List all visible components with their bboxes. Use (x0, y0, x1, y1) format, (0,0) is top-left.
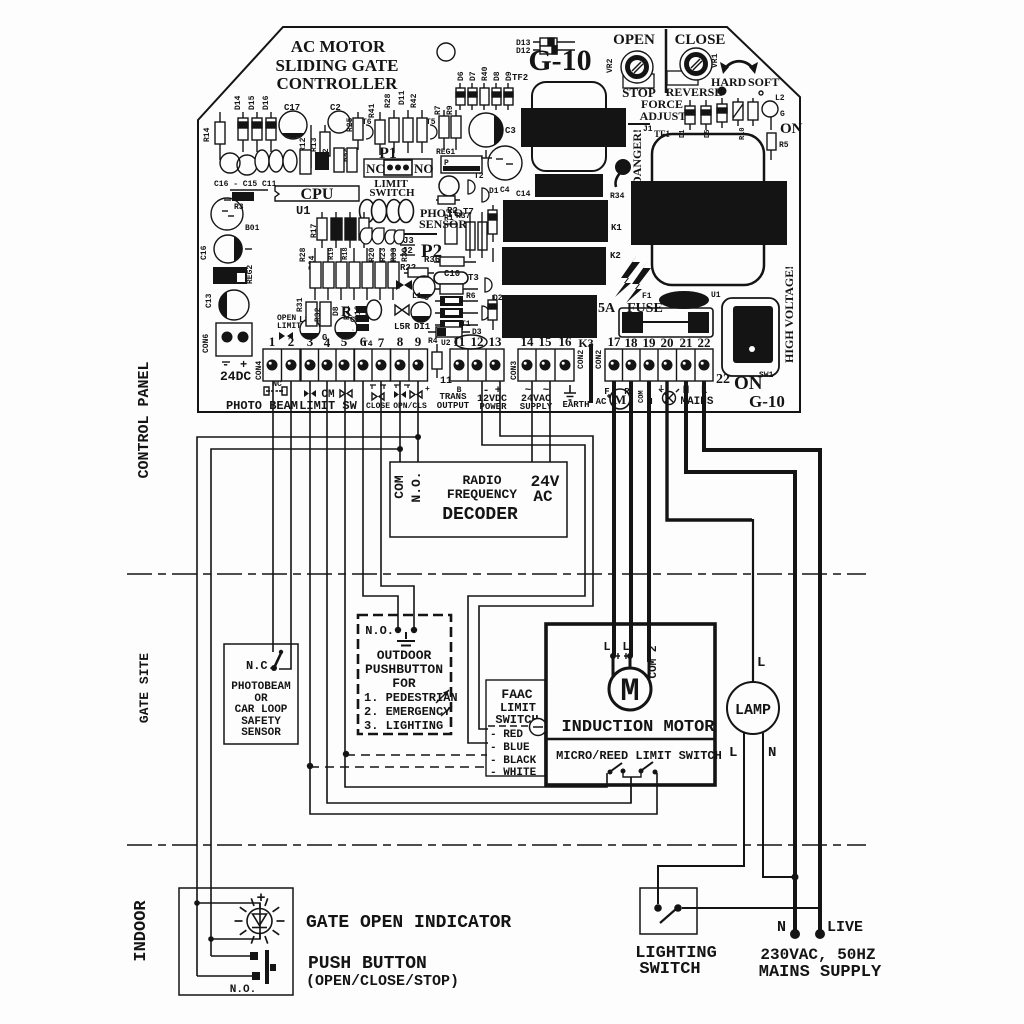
svg-text:N.O.: N.O. (230, 984, 256, 996)
svg-text:D14: D14 (234, 95, 243, 110)
svg-text:NC: NC (366, 161, 385, 176)
svg-text:SWITCH: SWITCH (369, 187, 415, 199)
svg-text:PUSH BUTTON: PUSH BUTTON (308, 954, 427, 974)
svg-text:R6: R6 (466, 292, 476, 301)
svg-text:CON6: CON6 (202, 334, 211, 353)
svg-text:11: 11 (440, 376, 452, 387)
svg-text:D15: D15 (248, 95, 257, 110)
svg-text:N: N (777, 919, 786, 936)
svg-text:DI1: DI1 (414, 322, 431, 332)
svg-text:L: L (660, 385, 664, 393)
svg-text:FOR: FOR (392, 676, 416, 691)
svg-text:SWITCH: SWITCH (639, 960, 700, 979)
svg-text:INDUCTION MOTOR: INDUCTION MOTOR (561, 718, 715, 737)
svg-text:15: 15 (539, 334, 553, 349)
svg-text:1: 1 (269, 334, 276, 349)
svg-text:TF1: TF1 (654, 129, 671, 139)
svg-text:CPU: CPU (301, 186, 334, 203)
svg-text:1. PEDESTRIAN: 1. PEDESTRIAN (364, 691, 458, 705)
svg-text:FREQUENCY: FREQUENCY (447, 487, 517, 502)
svg-text:G-10: G-10 (528, 44, 591, 77)
svg-text:OPN/CLS: OPN/CLS (393, 402, 427, 411)
svg-text:R33: R33 (390, 247, 399, 262)
svg-text:+: + (425, 385, 430, 394)
svg-text:N.O.: N.O. (365, 624, 394, 638)
svg-text:13: 13 (489, 334, 503, 349)
svg-text:C16: C16 (200, 245, 209, 260)
svg-text:24DC: 24DC (220, 369, 251, 384)
svg-text:- BLUE: - BLUE (490, 742, 530, 754)
svg-text:R36: R36 (424, 255, 440, 265)
svg-text:R7: R7 (434, 105, 443, 115)
svg-text:R41: R41 (368, 103, 377, 118)
svg-text:(OPEN/CLOSE/STOP): (OPEN/CLOSE/STOP) (306, 973, 459, 990)
svg-text:C3: C3 (505, 126, 516, 136)
svg-text:20: 20 (661, 335, 674, 350)
svg-text:OUTDOOR: OUTDOOR (377, 648, 432, 663)
svg-text:R34: R34 (610, 192, 625, 201)
svg-text:D8: D8 (493, 71, 502, 81)
svg-text:FAAC: FAAC (501, 687, 532, 702)
svg-text:19: 19 (643, 335, 657, 350)
svg-text:R19: R19 (328, 247, 336, 260)
svg-text:CON3: CON3 (510, 361, 519, 380)
svg-text:C16 - C15 C11: C16 - C15 C11 (214, 180, 277, 189)
svg-text:REG2: REG2 (246, 265, 255, 284)
svg-text:POWER: POWER (479, 402, 507, 412)
svg-text:INDOOR: INDOOR (132, 900, 151, 962)
svg-text:P: P (444, 159, 449, 168)
svg-text:D16: D16 (262, 95, 271, 110)
svg-text:TF2: TF2 (512, 73, 528, 83)
svg-text:C10: C10 (444, 269, 460, 279)
svg-text:D7: D7 (469, 71, 478, 81)
svg-text:AC MOTOR: AC MOTOR (291, 37, 386, 56)
svg-text:18: 18 (625, 335, 639, 350)
svg-text:R1: R1 (444, 214, 454, 223)
svg-text:F1: F1 (642, 292, 652, 301)
svg-text:U1: U1 (711, 291, 721, 300)
svg-text:CAR LOOP: CAR LOOP (235, 704, 288, 716)
svg-text:5A: 5A (598, 301, 616, 316)
svg-text:LAMP: LAMP (735, 702, 771, 719)
svg-text:3: 3 (307, 334, 314, 349)
svg-text:D9: D9 (505, 71, 514, 81)
svg-text:PUSHBUTTON: PUSHBUTTON (365, 662, 443, 677)
svg-text:CON2: CON2 (577, 350, 586, 369)
svg-text:RADIO: RADIO (462, 473, 501, 488)
svg-text:R14: R14 (203, 127, 212, 142)
svg-text:- BLACK: - BLACK (490, 755, 537, 767)
svg-text:M: M (620, 673, 639, 710)
svg-text:T6: T6 (362, 118, 372, 127)
svg-text:T5: T5 (426, 118, 436, 127)
svg-text:SENSOR: SENSOR (241, 727, 281, 739)
svg-text:MAINS SUPPLY: MAINS SUPPLY (759, 963, 882, 982)
svg-text:OPEN: OPEN (613, 32, 655, 48)
svg-text:R10: R10 (739, 127, 747, 140)
svg-text:J1: J1 (643, 125, 653, 134)
svg-text:N: N (768, 745, 776, 761)
svg-text:16: 16 (559, 334, 573, 349)
svg-text:GATE OPEN INDICATOR: GATE OPEN INDICATOR (306, 913, 511, 933)
svg-text:HIGH VOLTAGE!: HIGH VOLTAGE! (782, 266, 796, 363)
svg-text:R28: R28 (299, 247, 308, 262)
svg-text:9: 9 (415, 334, 422, 349)
svg-text:SUPPLY: SUPPLY (520, 402, 553, 412)
svg-text:R42: R42 (410, 93, 419, 108)
svg-text:T3: T3 (468, 273, 479, 283)
svg-text:DANGER!: DANGER! (630, 129, 644, 185)
svg-text:L5R: L5R (394, 322, 411, 332)
svg-text:K2: K2 (610, 251, 621, 261)
svg-text:D1: D1 (489, 187, 499, 196)
svg-text:PHOTO BEAM: PHOTO BEAM (226, 399, 298, 413)
svg-text:L: L (603, 640, 610, 654)
svg-text:L: L (622, 640, 629, 654)
svg-text:VR2: VR2 (606, 58, 615, 73)
svg-text:R31: R31 (296, 297, 305, 312)
svg-text:ON: ON (780, 121, 803, 137)
svg-text:21: 21 (680, 335, 693, 350)
svg-text:AC: AC (533, 488, 553, 506)
svg-text:R20: R20 (368, 247, 377, 262)
svg-text:8: 8 (397, 334, 404, 349)
svg-text:OUTPUT: OUTPUT (437, 401, 470, 411)
svg-text:C4: C4 (500, 186, 510, 195)
svg-text:R28: R28 (384, 93, 393, 108)
svg-text:CONTROLLER: CONTROLLER (277, 74, 399, 93)
svg-text:12: 12 (471, 334, 484, 349)
svg-text:N.O.: N.O. (409, 471, 424, 502)
svg-text:SW1: SW1 (759, 371, 774, 380)
svg-text:11: 11 (453, 334, 465, 349)
svg-text:+: + (256, 890, 265, 907)
svg-text:22: 22 (716, 372, 730, 387)
svg-text:G-10: G-10 (749, 392, 785, 411)
svg-text:B01: B01 (245, 224, 260, 233)
svg-text:R37: R37 (456, 212, 471, 221)
svg-text:T2: T2 (474, 172, 484, 181)
svg-text:- RED: - RED (490, 729, 523, 741)
svg-text:D11: D11 (398, 90, 407, 105)
svg-text:COM: COM (392, 475, 407, 499)
svg-text:K1: K1 (611, 223, 622, 233)
svg-text:230VAC, 50HZ: 230VAC, 50HZ (760, 946, 875, 964)
svg-text:EARTH: EARTH (562, 400, 589, 410)
svg-text:PHOTOBEAM: PHOTOBEAM (231, 681, 291, 693)
svg-text:3. LIGHTING: 3. LIGHTING (364, 719, 443, 733)
svg-text:4: 4 (324, 335, 331, 350)
svg-text:D5: D5 (704, 130, 712, 138)
svg-text:ADJUST: ADJUST (640, 109, 687, 123)
svg-text:5: 5 (341, 334, 348, 349)
svg-text:HARD: HARD (711, 75, 747, 89)
svg-text:MICRO/REED LIMIT SWITCH: MICRO/REED LIMIT SWITCH (556, 749, 722, 763)
svg-text:C14: C14 (516, 190, 531, 199)
svg-text:2: 2 (288, 334, 295, 349)
svg-text:AC: AC (596, 397, 607, 407)
svg-text:DECODER: DECODER (442, 505, 518, 525)
svg-text:D8: D8 (332, 306, 341, 316)
svg-text:R9: R9 (446, 105, 455, 115)
svg-text:14: 14 (521, 334, 535, 349)
svg-text:L2: L2 (775, 94, 785, 103)
svg-text:U1: U1 (296, 204, 310, 218)
svg-text:R5: R5 (779, 141, 789, 150)
svg-text:CLOSE: CLOSE (366, 402, 390, 411)
svg-text:7: 7 (378, 335, 385, 350)
svg-text:LIVE: LIVE (827, 919, 863, 936)
svg-text:CON4: CON4 (255, 361, 264, 380)
svg-text:NO: NO (414, 161, 434, 176)
svg-text:LIMIT SW: LIMIT SW (299, 399, 357, 413)
svg-text:2. EMERGENCY: 2. EMERGENCY (364, 705, 451, 719)
svg-text:GATE SITE: GATE SITE (137, 653, 152, 723)
svg-text:VR1: VR1 (711, 53, 720, 68)
svg-text:R40: R40 (481, 66, 490, 81)
svg-text:U2: U2 (441, 339, 451, 348)
svg-text:C13: C13 (205, 293, 214, 308)
svg-text:SOFT: SOFT (748, 75, 779, 89)
svg-text:R32: R32 (314, 307, 323, 322)
svg-text:CLOSE: CLOSE (675, 32, 726, 48)
svg-text:17: 17 (608, 334, 622, 349)
svg-text:L: L (729, 745, 737, 761)
svg-text:6: 6 (360, 334, 367, 349)
svg-text:D1: D1 (679, 130, 687, 138)
svg-text:R18: R18 (342, 247, 350, 260)
svg-text:LIMIT: LIMIT (277, 322, 301, 331)
svg-text:CON2: CON2 (595, 350, 604, 369)
svg-text:D6: D6 (457, 71, 466, 81)
svg-text:N.C.: N.C. (246, 659, 275, 673)
svg-text:- WHITE: - WHITE (490, 767, 537, 779)
svg-text:22: 22 (698, 335, 711, 350)
svg-text:L: L (757, 655, 765, 671)
svg-text:CONTROL PANEL: CONTROL PANEL (136, 361, 153, 478)
svg-text:COM: COM (638, 390, 646, 403)
svg-text:G: G (780, 110, 785, 119)
svg-text:SLIDING GATE: SLIDING GATE (276, 56, 399, 75)
